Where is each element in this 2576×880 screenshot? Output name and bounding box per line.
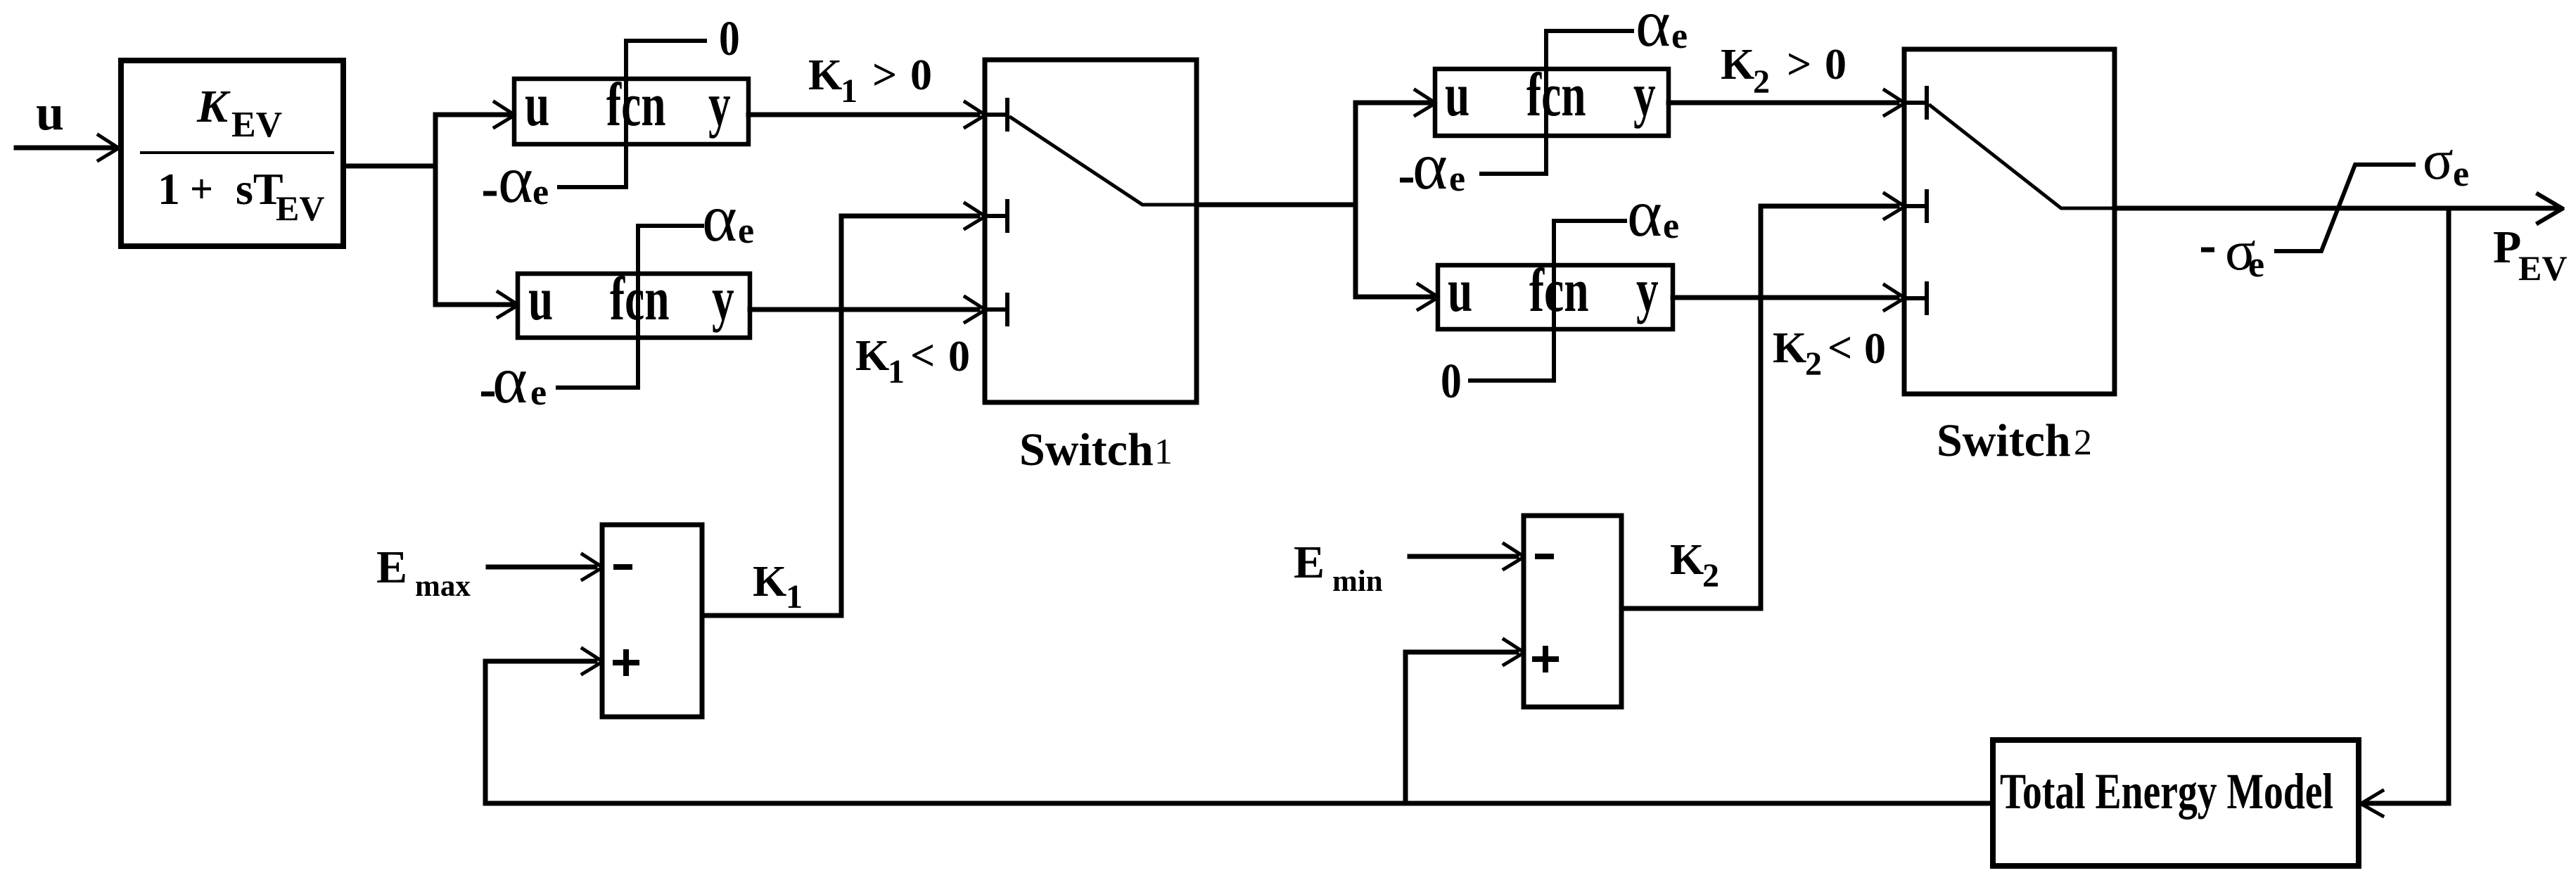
arrowhead into fcn1 (495, 102, 514, 127)
switch 1 block (985, 60, 1197, 402)
arrowhead into sum2 plus (1504, 639, 1524, 665)
svg-text:1: 1 (1154, 432, 1173, 472)
svg-text:α: α (1413, 129, 1448, 203)
arrowhead into switch1 top (965, 102, 985, 127)
svg-text:Switch: Switch (1937, 415, 2071, 466)
fcn block F4 (1438, 265, 1673, 329)
svg-text:>: > (1787, 41, 1811, 89)
svg-text:EV: EV (276, 189, 324, 228)
svg-text:P: P (2493, 222, 2521, 273)
wire into fcn2 (435, 302, 512, 307)
svg-text:Switch: Switch (1019, 424, 1154, 476)
svg-text:α: α (492, 343, 528, 417)
wire crossing vertical fcn3 (1544, 31, 1548, 174)
wire Emax arrow (488, 565, 595, 570)
arrowhead into fcn2 (498, 292, 518, 317)
switch 2 block (1904, 49, 2115, 394)
svg-text:fcn: fcn (1526, 60, 1586, 129)
wire branch vertical 2 (1356, 103, 1429, 297)
svg-text:<: < (910, 332, 935, 380)
arrowhead into switch1 middle (965, 203, 985, 229)
svg-text:σ: σ (2423, 128, 2454, 191)
svg-text:1: 1 (786, 578, 803, 616)
svg-text:e: e (1663, 206, 1679, 246)
arrowhead into fcn3 (1415, 90, 1435, 115)
svg-text:1: 1 (888, 353, 905, 390)
wire stub from -alpha_e (fcn3) (1481, 172, 1546, 176)
svg-text:0: 0 (910, 51, 932, 99)
fraction bar (141, 151, 333, 154)
label -alpha_e (below F3) (1400, 178, 1413, 183)
svg-text:E: E (1294, 537, 1325, 588)
svg-text:>: > (872, 51, 897, 99)
svg-text:0: 0 (719, 12, 740, 67)
svg-text:u: u (1445, 60, 1469, 129)
fcn block F3 (1435, 69, 1669, 136)
svg-text:Total Energy Model: Total Energy Model (2000, 763, 2333, 819)
switch2 lever diagonal (1930, 106, 2115, 208)
wire feedback up to sum2 plus (1405, 652, 1517, 803)
minus sign S2 (1538, 554, 1551, 559)
svg-text:α: α (1627, 176, 1662, 250)
label -alpha_e (below F2) (481, 392, 495, 397)
arrowhead into sum1 plus (582, 649, 602, 674)
svg-text:K: K (1721, 41, 1754, 89)
sum block S2 (1524, 516, 1621, 707)
svg-text:e: e (738, 211, 754, 251)
switch2 port tick bottom (1904, 283, 1927, 313)
wire crossing vertical fcn2 (636, 226, 640, 388)
arrowhead into switch2 bottom (1885, 285, 1904, 310)
wire feedback vertical from output (2364, 208, 2449, 803)
wire fcn1 output K1>0 (748, 113, 978, 117)
label -sigma_e (saturation bottom) (2201, 248, 2214, 253)
switch1 lever diagonal (1011, 117, 1197, 205)
switch2 port tick middle (1904, 191, 1927, 221)
svg-text:u: u (528, 264, 553, 333)
wire TF output (343, 164, 435, 169)
svg-text:<: < (1828, 324, 1852, 372)
svg-text:y: y (708, 70, 731, 139)
arrowhead output PEV (2538, 194, 2562, 223)
svg-text:α: α (498, 142, 533, 217)
svg-text:1: 1 (158, 164, 180, 214)
svg-text:e: e (2453, 154, 2469, 194)
svg-text:K: K (1670, 536, 1704, 584)
wire sum1 output K1 (702, 613, 841, 618)
svg-text:K: K (808, 51, 842, 99)
svg-text:2: 2 (2074, 423, 2092, 463)
wire stub to 0 (626, 39, 705, 43)
svg-text:K: K (855, 332, 889, 380)
arrowhead into switch1 bottom (965, 297, 985, 322)
svg-text:1: 1 (841, 72, 857, 110)
wire branch vertical 1 (435, 115, 509, 305)
wire TEM output feedback long (485, 801, 1993, 806)
wire stub from -alpha_e (559, 185, 626, 189)
svg-text:e: e (533, 172, 549, 212)
svg-text:+: + (190, 166, 213, 212)
svg-text:min: min (1332, 565, 1383, 598)
wire sum2 output K2 (1621, 606, 1761, 611)
svg-text:y: y (712, 264, 734, 333)
svg-text:2: 2 (1702, 557, 1719, 594)
wire K2 vertical (1761, 206, 1897, 608)
svg-text:0: 0 (1825, 41, 1847, 89)
svg-text:α: α (702, 181, 737, 255)
wire stub to alpha_e (fcn3) (1546, 29, 1632, 33)
svg-text:2: 2 (1805, 345, 1822, 383)
svg-text:e: e (530, 373, 547, 413)
svg-text:K: K (196, 81, 231, 132)
saturation symbol diagonal (2276, 165, 2414, 251)
input u wire (16, 146, 113, 151)
svg-text:0: 0 (1441, 355, 1462, 409)
wire stub from -alpha_e (fcn2) (558, 385, 638, 390)
fcn block F1 (514, 79, 748, 144)
switch1 port tick bottom (985, 295, 1007, 324)
wire fcn3 output K2>0 (1669, 101, 1897, 106)
svg-text:y: y (1636, 256, 1659, 325)
svg-text:EV: EV (2518, 248, 2567, 288)
plus sign S1 (616, 652, 637, 673)
svg-text:EV: EV (231, 105, 282, 145)
label u fcn y (F3) (1445, 60, 1656, 129)
switch1 port tick middle (985, 201, 1007, 231)
wire fcn4 output K2<0 (1673, 295, 1897, 300)
wire switch1 output (1197, 203, 1356, 208)
fcn block F2 (518, 274, 750, 338)
plus sign S2 (1535, 649, 1556, 670)
wire stub to alpha_e (fcn2) (638, 224, 702, 228)
arrowhead into fcn4 (1418, 284, 1438, 310)
wire switch2 output to PEV (2115, 206, 2558, 211)
svg-text:e: e (1671, 16, 1688, 56)
wire into fcn4 (1356, 295, 1432, 300)
svg-text:0: 0 (1864, 325, 1886, 373)
arrowhead into switch2 middle (1885, 193, 1904, 219)
svg-text:2: 2 (1753, 63, 1770, 101)
wire fcn2 output K1<0 (750, 307, 978, 312)
switch1 port tick top (985, 100, 1007, 129)
svg-text:E: E (376, 542, 407, 593)
svg-text:K: K (753, 558, 786, 606)
svg-text:u: u (1448, 256, 1472, 325)
svg-text:e: e (1449, 159, 1465, 199)
svg-text:0: 0 (948, 333, 970, 381)
sum block S1 (602, 525, 702, 717)
label u fcn y (F2) (528, 264, 734, 333)
svg-text:fcn: fcn (606, 70, 665, 139)
wire crossing vertical fcn1 (624, 41, 628, 187)
svg-text:y: y (1633, 60, 1656, 129)
wire Emin arrow (1410, 554, 1517, 559)
svg-text:u: u (36, 84, 64, 141)
input u arrowhead (98, 135, 118, 160)
transfer function block KEV/(1+sTEV) (121, 60, 343, 246)
wire stub to alpha_e (fcn4) (1554, 219, 1625, 223)
arrowhead into switch2 top (1885, 90, 1904, 115)
arrowhead into sum2 minus (1504, 544, 1524, 569)
wire stub from 0 (fcn4) (1470, 378, 1554, 383)
wire crossing vertical fcn4 (1552, 221, 1556, 381)
wire feedback up to sum1 plus (485, 661, 595, 803)
svg-text:fcn: fcn (1529, 256, 1588, 325)
minus sign S1 (616, 564, 630, 570)
svg-text:K: K (1773, 324, 1806, 372)
arrowhead into TEM right (2361, 791, 2383, 816)
svg-text:u: u (525, 70, 549, 139)
svg-text:α: α (1635, 0, 1671, 60)
label u fcn y (F4) (1448, 256, 1659, 325)
wire K1 vertical (841, 216, 978, 616)
label -alpha_e (below F1) (483, 191, 497, 196)
switch2 port tick top (1904, 88, 1927, 117)
total energy model block (1993, 740, 2359, 866)
svg-text:fcn: fcn (610, 264, 669, 333)
arrowhead into sum1 minus (582, 554, 602, 580)
svg-text:e: e (2248, 245, 2264, 285)
label u fcn y (F1) (525, 70, 731, 139)
svg-text:max: max (415, 570, 471, 603)
